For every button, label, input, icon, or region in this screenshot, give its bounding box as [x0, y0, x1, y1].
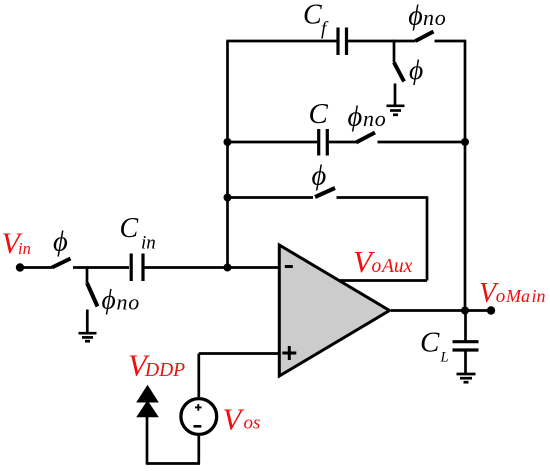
label phi row3 — [312, 161, 327, 192]
svg-text:ϕ: ϕ — [348, 101, 363, 132]
svg-text:in: in — [141, 233, 156, 254]
node row2-left junction — [224, 138, 232, 146]
capacitor CL — [453, 342, 479, 350]
svg-text:V: V — [223, 402, 245, 437]
wire input from terminal — [20, 266, 52, 269]
svg-text:ϕ: ϕ — [409, 54, 423, 85]
svg-text:no: no — [423, 5, 447, 30]
label VDDP — [128, 348, 185, 383]
svg-text:C: C — [309, 98, 329, 130]
node inverting input junction — [224, 264, 232, 272]
svg-text:ϕ: ϕ — [53, 227, 68, 258]
wire row2 left segment — [228, 141, 318, 144]
node output junction — [461, 307, 469, 315]
wire output to CL — [464, 311, 467, 342]
capacitor C — [319, 129, 328, 156]
source Vos — [181, 399, 217, 435]
wire left feedback bus — [226, 41, 229, 269]
label Vin — [2, 227, 31, 260]
switch phi-no top (row1) — [416, 32, 467, 42]
wire Vos bottom loop — [147, 414, 200, 465]
wire Cin to inverting node — [145, 266, 280, 269]
ground CL — [457, 374, 476, 382]
node Vin terminal — [16, 263, 24, 271]
label phi-no top — [408, 0, 446, 31]
label Cin — [120, 213, 156, 254]
ground input-branch — [79, 333, 97, 341]
wire CL to ground — [464, 352, 467, 374]
node row2-right junction — [461, 138, 469, 146]
label Vos — [223, 402, 261, 437]
switch phi input — [52, 259, 129, 268]
svg-text:ϕ: ϕ — [312, 161, 327, 192]
label VoAux — [353, 244, 413, 279]
svg-text:ϕ: ϕ — [408, 0, 423, 31]
svg-text:no: no — [363, 106, 387, 131]
label phi-no input-branch — [102, 283, 141, 314]
svg-text:L: L — [440, 350, 449, 366]
label C — [309, 98, 329, 130]
svg-text:C: C — [420, 327, 440, 359]
svg-text:no: no — [117, 289, 141, 314]
power VDDP double arrow — [136, 385, 159, 417]
label Cf — [303, 0, 329, 40]
switch phi-no input-branch to ground — [87, 266, 98, 332]
op-amp U1 — [279, 245, 389, 376]
svg-text:DDP: DDP — [144, 360, 185, 381]
pin plus label — [282, 346, 296, 360]
svg-text:Aux: Aux — [380, 256, 413, 277]
ground top-branch — [387, 106, 405, 115]
wire right feedback bus — [464, 41, 467, 312]
svg-text:in: in — [532, 286, 546, 306]
label CL — [420, 327, 449, 366]
switch phi row3 — [315, 188, 427, 198]
wire plus input to Vos — [199, 354, 280, 398]
label phi-no row2 — [348, 101, 387, 132]
label phi input — [53, 227, 68, 258]
capacitor Cf — [338, 28, 347, 56]
switch phi-no row2 — [356, 133, 465, 143]
wire row1 middle segment — [348, 40, 416, 43]
label VoMain — [479, 278, 546, 309]
wire row1 left segment — [226, 40, 337, 43]
pin minus label — [285, 265, 293, 268]
wire row2 middle segment — [329, 141, 356, 144]
svg-text:o: o — [496, 286, 506, 307]
wire output — [391, 309, 491, 312]
svg-text:in: in — [18, 239, 31, 258]
svg-text:C: C — [120, 213, 139, 244]
svg-text:os: os — [244, 413, 261, 434]
wire VoAux connector — [337, 196, 427, 280]
svg-text:Ma: Ma — [505, 286, 530, 306]
svg-text:ϕ: ϕ — [102, 283, 116, 314]
label phi top-branch — [409, 54, 423, 85]
node VoMain terminal — [487, 306, 495, 314]
svg-text:o: o — [372, 256, 382, 277]
switch phi top-branch to ground — [394, 40, 404, 105]
capacitor Cin — [131, 254, 143, 282]
wire row3 left segment — [228, 196, 314, 199]
node row3-left junction — [224, 194, 232, 202]
svg-text:C: C — [303, 0, 322, 31]
